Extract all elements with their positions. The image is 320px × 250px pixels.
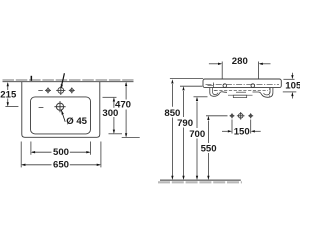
svg-text:Ø 45: Ø 45 [66, 116, 87, 127]
svg-text:650: 650 [53, 159, 69, 170]
basin inner rect [31, 97, 91, 134]
ear inner dash [214, 89, 217, 91]
wall line [3, 81, 134, 83]
dim 550 ext line [206, 115, 228, 117]
drain box [233, 95, 246, 97]
underside ledge line [236, 91, 246, 93]
wall fixing tick [31, 76, 32, 81]
dim 150 line + arrows [222, 130, 228, 132]
dim 700 ext line [194, 96, 208, 98]
dim 215 ext line [5, 106, 18, 108]
basin outer rect [22, 82, 100, 138]
dim 280 ext lines [221, 62, 223, 79]
dim 105 ext lines [283, 78, 294, 80]
tap hole center circle [56, 86, 65, 95]
svg-text:500: 500 [53, 147, 69, 158]
rim band [203, 79, 281, 88]
dim 300 ext lines [103, 96, 117, 98]
center underside line [228, 94, 253, 96]
dim 215 line + arrows [7, 83, 9, 105]
dim 850 line [171, 84, 173, 176]
hidden dashed vertical [269, 88, 271, 97]
dim 650 line [22, 164, 100, 166]
svg-text:550: 550 [201, 144, 217, 155]
floor hatch band [158, 181, 242, 183]
trap left diamond [230, 113, 235, 118]
dim 650 ext lines [20, 142, 22, 168]
dim 105 arrows [291, 73, 293, 76]
dim 500 ext lines [30, 142, 32, 155]
svg-text:150: 150 [234, 126, 250, 137]
drain leader [61, 110, 65, 122]
trap right diamond [248, 113, 253, 118]
right ear [253, 88, 273, 98]
dim 790 ext line [180, 85, 202, 87]
tap hole right diamond [69, 87, 75, 93]
left ear [210, 88, 227, 97]
svg-text:470: 470 [115, 99, 131, 110]
trap center circle [237, 112, 245, 120]
wall hatch band [3, 79, 134, 81]
svg-text:790: 790 [177, 118, 193, 129]
tap hole leader arrow [62, 73, 65, 85]
dim 150 ext lines [231, 120, 233, 134]
dim 850 ext line [170, 78, 203, 80]
dim 500 line [32, 151, 89, 153]
svg-text:215: 215 [0, 90, 17, 101]
svg-text:280: 280 [232, 56, 248, 67]
dim 790 line [183, 91, 185, 176]
drain centerline dash [39, 107, 44, 109]
small tick left [213, 83, 215, 88]
dim 280 line + arrows [209, 63, 271, 65]
dim 550 line [207, 121, 209, 177]
dim 300 line + arrows [113, 99, 115, 133]
hidden dashed line [215, 89, 269, 91]
tap row centerline dash [38, 89, 43, 91]
band centerline dash-dot [206, 84, 280, 86]
dim 470 line + arrows [125, 83, 127, 136]
drain target symbol [54, 101, 65, 112]
floor line [160, 179, 241, 181]
dim 700 line [196, 102, 198, 177]
dim 470 ext line [122, 136, 140, 138]
fixing hole left [223, 84, 227, 88]
svg-text:105: 105 [285, 81, 300, 92]
tap hole left diamond [45, 87, 51, 93]
svg-text:700: 700 [189, 129, 205, 140]
fixing hole right [251, 84, 255, 88]
